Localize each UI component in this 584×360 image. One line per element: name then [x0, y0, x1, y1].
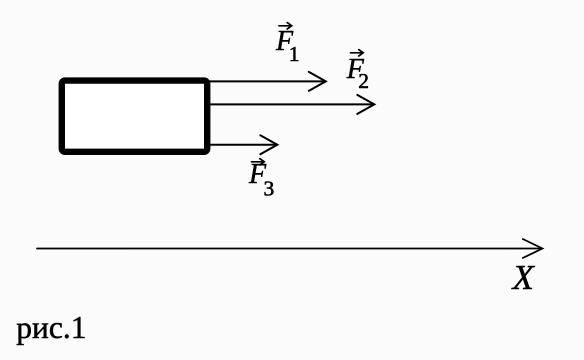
svg-text:1: 1: [289, 42, 300, 66]
svg-text:2: 2: [358, 69, 369, 93]
svg-text:3: 3: [264, 177, 275, 201]
svg-text:рис.1: рис.1: [16, 310, 86, 345]
svg-text:X: X: [511, 258, 536, 297]
